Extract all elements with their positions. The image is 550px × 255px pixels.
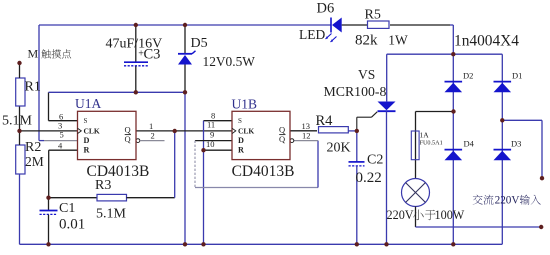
svg-text:D2: D2 bbox=[463, 71, 473, 81]
svg-text:C3: C3 bbox=[144, 47, 161, 63]
svg-text:D: D bbox=[84, 136, 90, 145]
svg-text:10: 10 bbox=[206, 139, 215, 149]
svg-text:U1A: U1A bbox=[75, 96, 101, 111]
svg-text:2: 2 bbox=[151, 131, 155, 141]
svg-text:S: S bbox=[84, 117, 88, 125]
svg-text:R5: R5 bbox=[365, 8, 381, 23]
svg-text:C1: C1 bbox=[59, 201, 75, 216]
svg-text:0.22: 0.22 bbox=[356, 170, 382, 186]
svg-text:D1: D1 bbox=[512, 71, 522, 81]
svg-text:220V: 220V bbox=[387, 208, 414, 222]
svg-text:20K: 20K bbox=[327, 141, 351, 156]
svg-text:1: 1 bbox=[149, 121, 153, 131]
svg-text:82k: 82k bbox=[355, 33, 378, 49]
svg-text:5: 5 bbox=[60, 130, 64, 140]
svg-text:Q: Q bbox=[125, 134, 131, 144]
svg-text:12V0.5W: 12V0.5W bbox=[203, 54, 256, 69]
svg-text:0.01: 0.01 bbox=[59, 217, 85, 233]
svg-text:D3: D3 bbox=[511, 139, 521, 149]
svg-text:100W: 100W bbox=[435, 208, 465, 222]
svg-text:D4: D4 bbox=[464, 139, 475, 149]
svg-text:CLK: CLK bbox=[84, 126, 100, 135]
svg-text:1n4004X4: 1n4004X4 bbox=[454, 33, 519, 50]
svg-text:5.1M: 5.1M bbox=[2, 114, 33, 129]
svg-text:FU0.5A1: FU0.5A1 bbox=[420, 140, 443, 147]
svg-text:220V: 220V bbox=[495, 195, 520, 207]
svg-text:Q: Q bbox=[279, 134, 285, 144]
svg-text:D6: D6 bbox=[317, 1, 335, 17]
svg-text:D: D bbox=[238, 136, 244, 145]
svg-text:1A: 1A bbox=[420, 131, 430, 140]
svg-text:2M: 2M bbox=[25, 154, 44, 169]
svg-text:VS: VS bbox=[358, 67, 375, 82]
svg-text:5.1M: 5.1M bbox=[96, 207, 127, 222]
svg-text:R: R bbox=[238, 145, 244, 154]
svg-text:R2: R2 bbox=[25, 140, 41, 155]
svg-text:R1: R1 bbox=[25, 80, 41, 95]
svg-text:CD4013B: CD4013B bbox=[232, 163, 295, 180]
svg-text:C2: C2 bbox=[367, 153, 383, 168]
svg-text:R3: R3 bbox=[95, 178, 111, 193]
svg-text:MCR100-8: MCR100-8 bbox=[324, 84, 387, 99]
svg-text:M: M bbox=[28, 47, 39, 61]
svg-text:R4: R4 bbox=[316, 113, 334, 129]
svg-text:LED: LED bbox=[299, 27, 325, 42]
svg-text:CLK: CLK bbox=[238, 126, 254, 135]
svg-text:S: S bbox=[238, 117, 242, 125]
svg-text:R: R bbox=[84, 145, 90, 154]
svg-text:12: 12 bbox=[302, 131, 311, 141]
svg-text:D5: D5 bbox=[191, 36, 208, 51]
svg-text:1W: 1W bbox=[388, 33, 408, 48]
svg-text:13: 13 bbox=[302, 121, 311, 131]
svg-text:U1B: U1B bbox=[232, 97, 258, 112]
svg-text:11: 11 bbox=[207, 120, 215, 130]
